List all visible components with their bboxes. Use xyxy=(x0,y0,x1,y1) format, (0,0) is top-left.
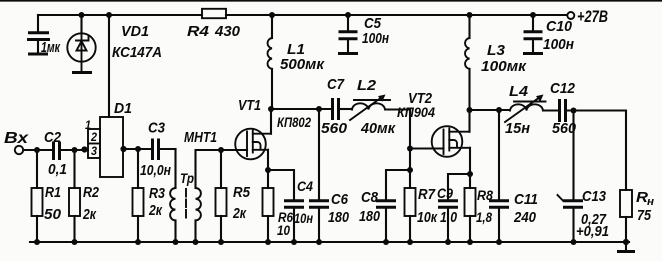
resistor R8 1,8 xyxy=(465,174,476,242)
node: VT2 source xyxy=(467,171,473,177)
wire: bottom ground rail xyxy=(30,241,629,243)
svg-text:100н: 100н xyxy=(362,30,389,47)
wire: VT2 source down xyxy=(469,148,471,174)
inductor L1 500мк xyxy=(268,12,275,109)
node: D1 input xyxy=(81,146,87,152)
capacitor C4 10н xyxy=(268,170,304,242)
svg-text:С7: С7 xyxy=(327,76,345,93)
svg-text:D1: D1 xyxy=(114,100,132,117)
capacitor C6 180 xyxy=(309,109,329,242)
resistor R5 2к xyxy=(216,150,227,242)
svg-text:0,1: 0,1 xyxy=(48,161,67,178)
transformer core xyxy=(185,189,187,218)
capacitor 1мк (supply bypass) xyxy=(27,15,50,52)
svg-text:2к: 2к xyxy=(148,202,163,219)
resistor R3 2к xyxy=(133,149,144,242)
node: C8 junction xyxy=(407,167,413,173)
node: R3 junction xyxy=(135,146,141,152)
ground (output, bottom right) xyxy=(625,242,627,251)
ground (C5) xyxy=(338,52,358,55)
wire: top power rail right of R4 xyxy=(226,14,567,16)
svg-text:180: 180 xyxy=(359,208,381,225)
svg-text:Вх: Вх xyxy=(4,130,30,147)
svg-text:КС147А: КС147А xyxy=(112,44,162,61)
node: R7 ground xyxy=(407,239,413,245)
node: R3 ground xyxy=(135,239,141,245)
node: C9 ground xyxy=(445,239,451,245)
svg-text:С3: С3 xyxy=(148,120,166,137)
svg-text:R5: R5 xyxy=(233,184,251,201)
wire: VT1 source down xyxy=(267,150,269,170)
node: R2 ground xyxy=(72,239,78,245)
node: C6 junction xyxy=(316,106,322,112)
capacitor C7 xyxy=(333,98,339,120)
svg-text:R3: R3 xyxy=(149,185,166,202)
svg-text:500мк: 500мк xyxy=(280,56,325,73)
capacitor C13 0,27+0,91 (trimmer) xyxy=(558,111,584,243)
capacitor C12 560 xyxy=(560,99,566,122)
terminal: +27В supply xyxy=(567,12,574,19)
svg-text:2к: 2к xyxy=(232,205,247,222)
svg-text:40мк: 40мк xyxy=(360,120,396,137)
node: C4 ground xyxy=(291,239,297,245)
capacitor C11 240 xyxy=(489,110,509,242)
node: R5 ground xyxy=(218,239,224,245)
capacitor C3 xyxy=(153,139,159,161)
wire: rail to VD1 xyxy=(80,15,82,34)
resistor R6 10 xyxy=(263,170,274,242)
capacitor C8 180 xyxy=(376,170,410,242)
wire: C12 to load xyxy=(567,111,626,191)
resistor R2 2к xyxy=(69,150,80,242)
resistor R1 50 xyxy=(32,150,43,242)
wire: D1 to C3 xyxy=(124,148,152,150)
ground (C10) xyxy=(523,52,543,55)
svg-text:560: 560 xyxy=(321,120,348,137)
zener diode VD1 КС147А xyxy=(67,33,95,71)
svg-text:2: 2 xyxy=(90,130,97,144)
svg-text:С10: С10 xyxy=(546,18,573,35)
wire: C2 to D1 xyxy=(61,149,88,151)
node: C6 ground xyxy=(316,239,322,245)
svg-text:С2: С2 xyxy=(44,129,62,146)
svg-text:L4: L4 xyxy=(509,83,529,100)
svg-text:2к: 2к xyxy=(82,206,97,223)
svg-text:С6: С6 xyxy=(331,191,349,208)
node: VT1 source xyxy=(265,167,271,173)
svg-text:+0,91: +0,91 xyxy=(576,223,609,240)
node: C13 junction xyxy=(571,108,577,114)
IC D1 (quartz resonator block) xyxy=(88,117,123,177)
svg-text:3: 3 xyxy=(91,144,97,158)
wire: drain node to C7 xyxy=(271,108,331,110)
svg-text:R1: R1 xyxy=(45,184,61,201)
node: C8 ground xyxy=(383,239,389,245)
svg-text:L3: L3 xyxy=(487,42,506,59)
capacitor C5 100н xyxy=(339,12,358,52)
svg-text:VD1: VD1 xyxy=(121,23,149,40)
node: R5 junction xyxy=(218,147,224,153)
node: VT2 gate xyxy=(407,146,413,152)
svg-text:С12: С12 xyxy=(550,80,576,97)
svg-text:КП802: КП802 xyxy=(277,115,311,130)
resistor R4 430 xyxy=(202,9,226,18)
svg-text:10к: 10к xyxy=(417,209,438,226)
svg-text:10н: 10н xyxy=(294,211,313,226)
svg-text:100мк: 100мк xyxy=(481,58,527,75)
wire: C7 to L2 xyxy=(340,108,352,110)
transistor VT2 КП904 xyxy=(432,126,470,157)
resistor R7 10к xyxy=(405,188,416,242)
svg-text:МНТ1: МНТ1 xyxy=(184,129,217,146)
node: D1 output xyxy=(120,146,126,152)
wire: C3 to transformer xyxy=(160,148,176,150)
node: C11 ground xyxy=(496,239,502,245)
wire: VT2 drain up xyxy=(468,110,470,132)
svg-text:VT1: VT1 xyxy=(238,97,261,114)
svg-text:С9: С9 xyxy=(437,186,453,201)
node: R8 ground xyxy=(467,239,473,245)
transformer Тр primary winding xyxy=(170,149,175,242)
node: rail/D1 junction xyxy=(106,12,112,18)
svg-text:+27В: +27В xyxy=(577,8,608,26)
wire: input to C2 xyxy=(23,149,52,151)
wire: L2 to VT2 gate column xyxy=(386,110,410,189)
node: primary ground xyxy=(173,239,179,245)
svg-text:240: 240 xyxy=(513,209,536,226)
svg-text:10: 10 xyxy=(277,223,290,238)
wire: VT1 drain up xyxy=(270,109,272,134)
svg-text:Тр: Тр xyxy=(180,171,194,186)
wire: drain node to L4 xyxy=(470,109,510,111)
svg-text:С11: С11 xyxy=(514,191,538,208)
svg-text:50: 50 xyxy=(44,206,62,223)
node: VT1 drain / L1 xyxy=(268,106,274,112)
wire: top power rail left of R4 xyxy=(38,14,202,16)
capacitor C2 xyxy=(54,142,60,161)
transformer Тр secondary winding xyxy=(196,150,248,242)
node: R2 junction xyxy=(72,147,78,153)
svg-text:R4: R4 xyxy=(187,23,210,40)
transistor VT1 КП802 xyxy=(235,129,271,160)
svg-text:100н: 100н xyxy=(543,36,574,53)
wire: rail down to D1 xyxy=(108,15,110,117)
node: VT2 drain / L3 xyxy=(467,107,473,113)
node: R6 ground xyxy=(265,239,271,245)
capacitor C10 100н xyxy=(524,12,543,52)
capacitor C9 1,0 xyxy=(438,174,470,242)
svg-text:15н: 15н xyxy=(505,120,530,137)
svg-text:R7: R7 xyxy=(418,186,436,203)
inductor L4 15н (adjustable) xyxy=(505,95,546,123)
svg-text:180: 180 xyxy=(328,209,350,226)
inductor L2 40мк (adjustable) xyxy=(350,95,390,121)
ground (1мк capacitor) xyxy=(28,53,48,56)
node: secondary ground xyxy=(193,239,199,245)
resistor Rн 75 (load) xyxy=(620,190,632,242)
node: Rн ground xyxy=(623,239,629,245)
svg-text:10,0н: 10,0н xyxy=(140,162,171,179)
svg-text:75: 75 xyxy=(637,207,652,224)
svg-text:С13: С13 xyxy=(582,188,607,205)
svg-text:R2: R2 xyxy=(83,184,100,201)
svg-text:С8: С8 xyxy=(361,189,379,206)
node: rail/VD1 junction xyxy=(79,12,85,18)
inductor L3 100мк xyxy=(465,12,472,110)
ground (VD1) xyxy=(72,71,92,74)
terminal: input Вх xyxy=(15,146,23,154)
node: R1 junction xyxy=(34,147,40,153)
svg-text:1,8: 1,8 xyxy=(476,210,492,225)
wire: L4 to C12 xyxy=(543,109,557,111)
svg-text:1мк: 1мк xyxy=(41,39,61,56)
svg-text:КП904: КП904 xyxy=(397,105,435,120)
svg-text:430: 430 xyxy=(214,23,241,40)
svg-text:1,0: 1,0 xyxy=(440,209,458,226)
svg-text:L2: L2 xyxy=(357,77,377,94)
node: R1 ground xyxy=(34,239,40,245)
wire: gate node to VT2 xyxy=(410,147,444,149)
node: C13 ground xyxy=(571,239,577,245)
node: C11 junction xyxy=(496,107,502,113)
svg-text:С4: С4 xyxy=(297,179,313,194)
